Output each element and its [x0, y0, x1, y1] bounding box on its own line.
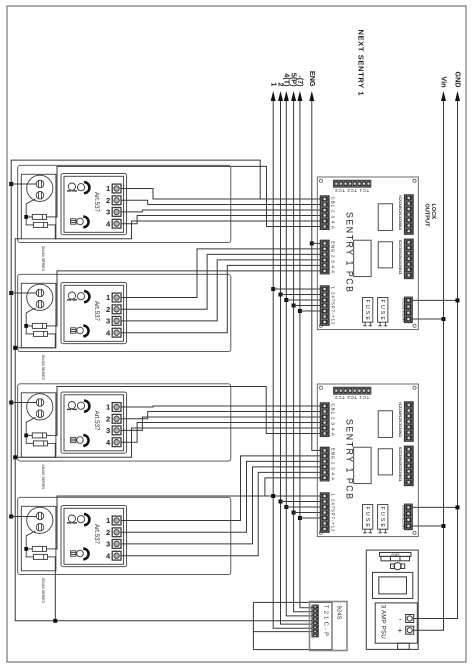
svg-text:3 AMP PSU: 3 AMP PSU	[380, 605, 386, 639]
phone1 wire t4 to CB1 c5	[121, 216, 320, 224]
mains terminal	[380, 553, 412, 557]
phone3 wire t3 to CB2 c3	[121, 417, 320, 430]
arrow riser 2	[278, 91, 283, 101]
phone3 box-bottom wire to CB2 c5	[56, 428, 320, 457]
junction riser1 / PCB2 lower c1	[271, 494, 275, 498]
transformer	[373, 572, 413, 598]
phone3 wire t1 to CB2 c1	[121, 406, 320, 407]
wire to PCB1 lower c1	[273, 288, 320, 290]
junction riser3 / PCB2 lower c3	[284, 505, 288, 509]
PSU outer box	[366, 550, 418, 649]
phone3 wire t4 to CB2 c4	[121, 423, 320, 443]
svg-text:-: -	[399, 614, 402, 623]
wire PSU plus to Vin line	[414, 629, 444, 631]
junction ENG riser / ENG1 c1	[310, 241, 314, 245]
junction bus2-phone4	[53, 619, 57, 623]
phone4 wire t2 to ENG2 c3	[121, 461, 320, 532]
svg-text:924S: 924S	[336, 606, 342, 620]
wire PSU minus to GND line	[414, 618, 458, 620]
phone2 wire t1 to ENG1 c2	[121, 249, 320, 298]
phone2 wire t2 to ENG1 c3	[121, 254, 320, 309]
phone1 wire t2 to CB1 c3	[121, 200, 320, 204]
Sentry 1 PCB (lower)	[317, 384, 418, 537]
bottom tab	[398, 643, 410, 649]
intercom phone unit 4	[18, 497, 231, 603]
intercom phone unit 1	[18, 165, 231, 271]
phone3 resistor B drop	[15, 443, 55, 457]
junction PCB2 VIN	[442, 524, 446, 528]
PSU unit	[366, 550, 418, 649]
plus terminal	[406, 626, 414, 634]
ENG riser	[312, 95, 320, 450]
PSU output module	[375, 603, 417, 643]
svg-text:240V: 240V	[391, 552, 400, 556]
intercom phone unit 3	[18, 384, 231, 490]
wire to PCB1 lower c2	[281, 294, 321, 296]
svg-text:GND: GND	[454, 72, 463, 88]
junction riser1 / PCB1 lower c1	[271, 287, 275, 291]
phone4 wire t3 to ENG2 c4	[121, 467, 320, 544]
junction bus-phone2	[9, 291, 13, 295]
svg-text:+: +	[398, 626, 403, 635]
phone1 wire t1 to CB1 c2	[121, 189, 260, 200]
arrow ENG	[309, 91, 314, 101]
bus2 wire: speaker return chain	[15, 239, 311, 621]
riser 2	[281, 95, 312, 624]
timeclock extra wire	[253, 631, 311, 633]
arrow riser 3	[284, 91, 289, 101]
GND supply line	[457, 95, 459, 619]
junction riser4 / PCB1 lower c4	[292, 304, 296, 308]
phone1 resistor B drop	[54, 225, 56, 239]
phone1 wire t3 to CB1 c4	[121, 210, 320, 212]
wire bus to phone4 speaker	[11, 516, 36, 518]
wire to PCB1 lower c4	[294, 305, 321, 307]
junction bus-phone4	[9, 515, 13, 519]
wire bus to phone2 speaker	[11, 292, 36, 294]
riser 1	[273, 95, 311, 628]
wire ENG riser to ENG1 c1	[312, 242, 320, 244]
fuse holder	[391, 564, 395, 569]
junction riser3 / PCB1 lower c3	[284, 298, 288, 302]
junction PCB1 VIN	[442, 317, 446, 321]
Sentry 1 PCB (upper)	[317, 177, 418, 330]
phone3 A-wire to CB2 c6	[57, 387, 320, 436]
junction bus2-phone2	[13, 346, 17, 350]
phone2 A-wire to ENG1 c6	[57, 271, 320, 326]
wire bus to CB1 cell 1	[260, 198, 320, 200]
wire bus to phone1 speaker	[11, 183, 36, 185]
wire to PCB2 lower c3	[286, 506, 320, 508]
svg-text:OUTPUT: OUTPUT	[424, 204, 430, 228]
arrow GND	[455, 91, 460, 101]
phone4 A-wire to PCB2 lower c1	[57, 496, 320, 549]
junction riser2 / PCB2 lower c2	[279, 500, 283, 504]
phone2 resistor B drop	[15, 334, 55, 348]
svg-text:NEXT SENTRY 1: NEXT SENTRY 1	[357, 30, 366, 96]
wire PCB1 VIN	[412, 318, 443, 320]
junction riser4 / PCB2 lower c4	[292, 511, 296, 515]
phone4 resistor B drop	[54, 557, 56, 621]
wire to PCB2 lower c2	[281, 501, 321, 503]
phone1 box-bottom wire to CB1 c5	[56, 221, 320, 239]
riser 5	[300, 95, 312, 608]
arrow riser 5	[297, 91, 302, 101]
wire PCB2 GND	[412, 506, 457, 508]
timeclock T21C-P box	[310, 602, 348, 651]
wire to PCB2 lower c4	[294, 512, 321, 514]
intercom phone unit 2	[18, 274, 231, 380]
wire to PCB2 lower c5	[300, 517, 320, 519]
junction riser2 / PCB1 lower c2	[279, 293, 283, 297]
label LOCK OUTPUT	[424, 204, 437, 228]
phone4 wire t1 to ENG2 c2	[121, 456, 320, 521]
wire PCB2 VIN	[412, 525, 443, 527]
svg-text:Vin: Vin	[440, 76, 449, 87]
arrow Vin	[441, 91, 446, 101]
junction bus-phone3	[9, 401, 13, 405]
junction riser5 / PCB1 lower c5	[298, 309, 302, 313]
phone4 wire t4 to ENG2 c5	[121, 472, 320, 555]
junction PCB1 GND	[456, 298, 460, 302]
svg-text:-(7): -(7)	[296, 75, 305, 87]
junction riser5 / PCB2 lower c5	[298, 516, 302, 520]
phone2 wire t3 to ENG1 c4	[121, 260, 320, 321]
bus wire: common return (left vertical bus)	[11, 160, 260, 516]
svg-text:LOCK: LOCK	[430, 204, 436, 220]
minus terminal	[406, 615, 414, 623]
phone2 wire t4 to ENG1 c5	[121, 265, 320, 332]
timeclock outer panel	[253, 602, 332, 649]
phone3 wire t2 to CB2 c2	[121, 412, 320, 419]
wire PCB1 GND	[412, 299, 457, 301]
arrow riser 4	[291, 91, 296, 101]
riser 4	[294, 95, 312, 612]
svg-text:ENG: ENG	[308, 71, 317, 87]
junction bus-phone1	[9, 182, 13, 186]
wire to PCB1 lower c3	[286, 299, 320, 301]
ENG2 c6 link	[265, 478, 320, 496]
junction PCB2 GND	[456, 505, 460, 509]
Vin supply line	[443, 95, 445, 630]
wire to PCB1 lower c5	[300, 310, 320, 312]
junction bus2-phone3	[13, 455, 17, 459]
wire bus to phone3 speaker	[11, 402, 36, 404]
phone1 A-wire (resistor A riser to CB1 cell 6)	[57, 166, 320, 226]
arrow riser 1	[271, 91, 276, 101]
riser 3	[286, 95, 311, 616]
